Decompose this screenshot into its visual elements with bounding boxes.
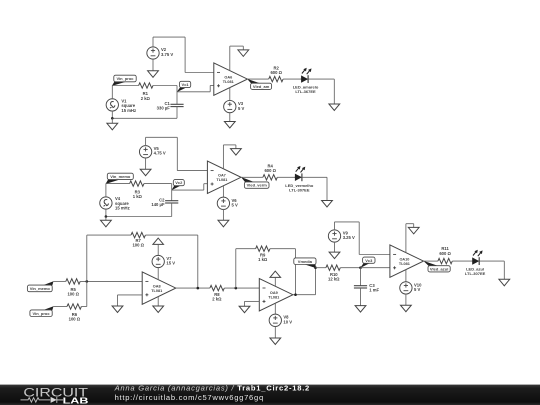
wire V9 top horizontal — [335, 221, 360, 223]
wire Vin_proc to R6 — [54, 306, 68, 308]
wire V2 top horizontal — [153, 36, 185, 38]
wire to OA7 inverting input — [177, 170, 207, 172]
capacitor C2 (140 &#181;F) — [165, 201, 178, 203]
wire V9 top up — [334, 222, 336, 231]
node Vin_proc — [112, 75, 136, 86]
wire corner down — [333, 79, 335, 104]
wire corner down (block2) — [326, 177, 328, 200]
wire feedback top to R7 — [87, 234, 131, 236]
ground below V2 — [148, 71, 159, 78]
op-amp OA10 TL081 — [390, 245, 424, 277]
resistor R5 (100 &#937;) — [66, 279, 80, 284]
wire OA7 output to R4 — [241, 176, 263, 178]
wire OA10 output to R11 — [424, 260, 438, 262]
wire OA7 V+ horizontal — [223, 144, 236, 146]
ground at OA6 positive supply — [238, 46, 249, 56]
wire down to OA6 inverting input — [184, 37, 186, 72]
ground at OA7 positive supply — [231, 145, 242, 155]
wire V5 top horizontal — [146, 136, 178, 138]
wire OA9 noninverting input left — [245, 300, 260, 302]
resistor R10 (12 k&#937;) — [326, 265, 340, 270]
resistor R4 (600 &#937;) — [263, 175, 277, 180]
voltage source V2 (3.75 V DC) — [147, 47, 159, 59]
svg-text:Vin_memo: Vin_memo — [30, 286, 51, 291]
wire Vin_memo to R5 — [54, 280, 66, 282]
resistor R6 (100 &#937;) — [67, 304, 81, 309]
svg-text:Vc1: Vc1 — [182, 82, 190, 87]
wire junction vertical — [86, 235, 88, 306]
wire R10 to node Vc3 — [340, 267, 360, 269]
wire jog to OA7 noninverting input — [204, 183, 208, 185]
wire C3 bottom — [360, 288, 362, 306]
wire R3 to node Vc2 — [144, 183, 172, 185]
wire Vc1 to OA6 noninverting jog — [177, 91, 210, 93]
svg-text:Vmedia: Vmedia — [298, 259, 313, 264]
capacitor C3 (1 mF) — [354, 286, 367, 288]
voltage source V1 (square 15 mHz) — [106, 99, 118, 111]
wire R2 to LED_amarelo — [283, 78, 301, 80]
svg-text:LAB: LAB — [63, 395, 89, 405]
wire Vin_proc to R1 — [112, 85, 138, 87]
resistor R9 (1 k&#937;) — [256, 246, 270, 251]
svg-text:OA7: OA7 — [218, 174, 226, 178]
svg-text:TL081: TL081 — [223, 80, 234, 84]
svg-text:http://circuitlab.com/c57wwv6g: http://circuitlab.com/c57wwv6gg76gq — [115, 393, 264, 402]
op-amp OA6 TL081 — [214, 63, 248, 95]
wire OA10 V+ pin up — [405, 224, 407, 253]
junction Vmedia — [314, 266, 317, 269]
wire R1 to node Vc1 — [153, 85, 177, 87]
CircuitLab logo circuit line with resistor and diode — [21, 397, 64, 403]
node Vin_memo (adder input) — [27, 281, 53, 292]
ground below V8 — [270, 327, 281, 345]
junction R5/R6 node — [86, 280, 89, 283]
wire R4 to LED_vermelho — [277, 176, 295, 178]
svg-text:Vin_proc: Vin_proc — [33, 311, 51, 316]
wire V2 bottom — [152, 59, 154, 71]
wire Vmedia to R10 — [316, 267, 326, 269]
wire C2 bottom — [171, 203, 173, 217]
wire jog up — [209, 86, 211, 92]
wire R5 to OA8 inverting input — [80, 280, 142, 282]
footer bar — [0, 385, 540, 405]
wire R9 to corner — [270, 248, 296, 250]
wire C1 bottom — [176, 107, 178, 119]
svg-text:OA8: OA8 — [153, 285, 161, 289]
op-amp OA8 TL081 — [142, 272, 176, 304]
wire V4 bottom — [105, 209, 107, 217]
svg-text:Vc2: Vc2 — [175, 180, 183, 185]
svg-text:OA9: OA9 — [270, 291, 278, 295]
wire jog up (block2) — [203, 184, 205, 190]
ground below V10 — [401, 294, 412, 312]
ground below V5 — [140, 169, 151, 176]
svg-text:TL081: TL081 — [151, 289, 162, 293]
node Vc3 — [360, 257, 375, 268]
wire V5 bottom — [145, 157, 147, 169]
flipped ground above OA9 — [270, 271, 281, 286]
flipped ground above V7 — [153, 238, 164, 256]
voltage source V5 (4.75 V DC) — [139, 146, 151, 158]
wire bottom rail block2 — [106, 216, 172, 218]
svg-text:LED_amareloLTL-367EE: LED_amareloLTL-367EE — [293, 85, 319, 94]
wire R6 to junction — [81, 306, 86, 308]
wire OA7 V+ pin up — [222, 145, 224, 169]
junction Vc3 — [359, 266, 362, 269]
node Vc1 — [177, 81, 191, 92]
voltage source V4 (square 15 mHz) — [100, 197, 112, 209]
svg-text:TL081: TL081 — [399, 262, 410, 266]
ground after LED_azul — [499, 279, 510, 286]
ground below V3 — [224, 112, 235, 128]
resistor R3 (1 k&#937;) — [130, 181, 144, 186]
wire OA8 noninverting input left — [118, 294, 143, 296]
wire Vc3 to OA10 noninverting input — [361, 267, 390, 269]
wire OA10 V- pin down to V10 — [405, 270, 407, 283]
wire feedback up to R9 — [235, 249, 237, 288]
LED LED_vermelho (LTL-307EE) — [294, 166, 305, 181]
junction V4 bottom — [105, 215, 108, 218]
resistor R2 (600 &#937;) — [269, 76, 283, 81]
wire Vin_memo to R3 — [106, 183, 130, 185]
ground after LED_vermelho — [322, 201, 333, 208]
wire LED_amarelo to corner — [309, 78, 335, 80]
junction OA9 inverting node — [235, 287, 238, 290]
svg-text:Vled_azul: Vled_azul — [430, 266, 448, 271]
wire Vc2 to OA7 noninverting jog — [172, 189, 204, 191]
ground below V9 — [329, 252, 340, 259]
wire OA10 V+ horizontal — [406, 223, 414, 225]
svg-text:Vc3: Vc3 — [365, 258, 373, 263]
LED LED_amarelo (LTL-367EE) — [301, 68, 312, 83]
wire jog to OA6 noninverting input — [210, 85, 214, 87]
wire down to OA10 inverting input — [358, 222, 360, 255]
svg-text:Vled_am: Vled_am — [253, 84, 270, 89]
op-amp OA7 TL081 — [207, 161, 241, 193]
voltage source V6 (5 V DC) — [217, 197, 229, 209]
voltage source V7 (15 V DC) — [152, 255, 164, 267]
wire R8 to OA9 inverting input — [224, 287, 259, 289]
svg-text:Vin_memo: Vin_memo — [110, 174, 131, 179]
ground at OA8 negative supply — [153, 306, 164, 313]
wire V1 bottom — [111, 111, 113, 119]
ground at OA10 positive supply — [408, 224, 419, 234]
wire V7 to OA8 V+ pin — [157, 267, 159, 280]
svg-text:LED_azulLTL-307EE: LED_azulLTL-307EE — [465, 267, 486, 276]
svg-text:OA10: OA10 — [399, 258, 409, 262]
LED LED_azul (LTL-307EE) — [472, 250, 483, 265]
junction OA8 output/feedback — [197, 287, 200, 290]
voltage source V10 (5 V DC) — [400, 282, 412, 294]
wire R7 to corner — [145, 234, 197, 236]
wire OA6 V+ pin up — [229, 46, 231, 71]
wire OA8 output to R8 — [176, 287, 210, 289]
resistor R7 (100 &#937;) — [131, 232, 145, 237]
node Vmedia — [294, 258, 316, 268]
wire OA9 output right — [293, 294, 316, 296]
wire OA6 output to R2 — [247, 78, 269, 80]
voltage source V8 (10 V DC) — [269, 314, 281, 326]
resistor R8 (2 k&#937;) — [210, 285, 224, 290]
ground below V6 — [218, 209, 229, 227]
svg-text:Vin_proc: Vin_proc — [116, 76, 134, 81]
wire to OA10 inverting input — [359, 254, 390, 256]
wire OA6 V+ horizontal — [230, 45, 244, 47]
wire feedback down to OA8 output — [197, 235, 199, 288]
wire LED_vermelho to corner — [302, 176, 327, 178]
svg-text:Anna Garcia (annacgarcias) / T: Anna Garcia (annacgarcias) / Trab1_Circ2… — [114, 384, 310, 393]
wire OA7 V- pin down to V6 — [222, 186, 224, 198]
wire corner down (block3) — [503, 261, 505, 279]
svg-text:TL081: TL081 — [268, 296, 279, 300]
svg-text:TL081: TL081 — [216, 178, 227, 182]
junction V1 bottom — [111, 117, 114, 120]
resistor R11 (600 &#937;) — [438, 258, 452, 263]
ground at OA8 noninverting input — [112, 295, 123, 313]
wire OA9 V- pin down to V8 — [274, 303, 276, 315]
wire to OA6 inverting input — [185, 72, 214, 74]
wire R11 to LED_azul — [452, 260, 472, 262]
wire down to OA7 inverting input — [176, 137, 178, 170]
wire Vc1 junction down to C1 — [176, 86, 178, 105]
node Vc2 — [171, 180, 184, 191]
wire OA6 V- pin down to V3 — [229, 88, 231, 102]
ground below V4 — [101, 217, 112, 227]
op-amp OA9 TL081 — [259, 279, 293, 311]
wire V4 top — [105, 184, 107, 198]
voltage source V3 (5 V DC) — [224, 100, 236, 112]
wire V9 bottom — [334, 242, 336, 253]
wire V1 top — [111, 86, 113, 100]
wire V5 top up — [145, 137, 147, 146]
wire Vc2 junction down to C2 — [171, 184, 173, 201]
wire up to node Vmedia — [315, 268, 317, 295]
wire to R9 — [236, 248, 256, 250]
wire feedback down to OA9 output — [295, 249, 297, 295]
wire OA8 V- pin down — [157, 296, 159, 306]
wire Vc3 down to C3 — [360, 268, 362, 286]
node Vin_proc (adder input) — [30, 306, 54, 316]
capacitor C1 (330 &#181;F) — [170, 104, 183, 106]
wire LED_azul to corner — [480, 260, 505, 262]
ground at OA9 noninverting input — [239, 301, 250, 312]
ground below C3 — [355, 306, 366, 313]
node Vin_memo (source) — [106, 173, 134, 184]
junction OA9 output/feedback — [294, 293, 297, 296]
svg-text:Vled_verm: Vled_verm — [247, 183, 268, 188]
node Vled_azul — [423, 261, 450, 272]
node Vled_verm — [241, 177, 269, 188]
ground after LED_amarelo — [329, 104, 340, 111]
wire V2 top up — [152, 37, 154, 47]
node Vled_am — [247, 79, 272, 90]
wire bottom rail block1 — [112, 117, 177, 119]
svg-text:OA6: OA6 — [224, 76, 232, 80]
resistor R1 (2 k&#937;) — [139, 83, 153, 88]
voltage source V9 (3.25 V DC) — [328, 230, 340, 242]
ground below V1 — [107, 118, 118, 130]
